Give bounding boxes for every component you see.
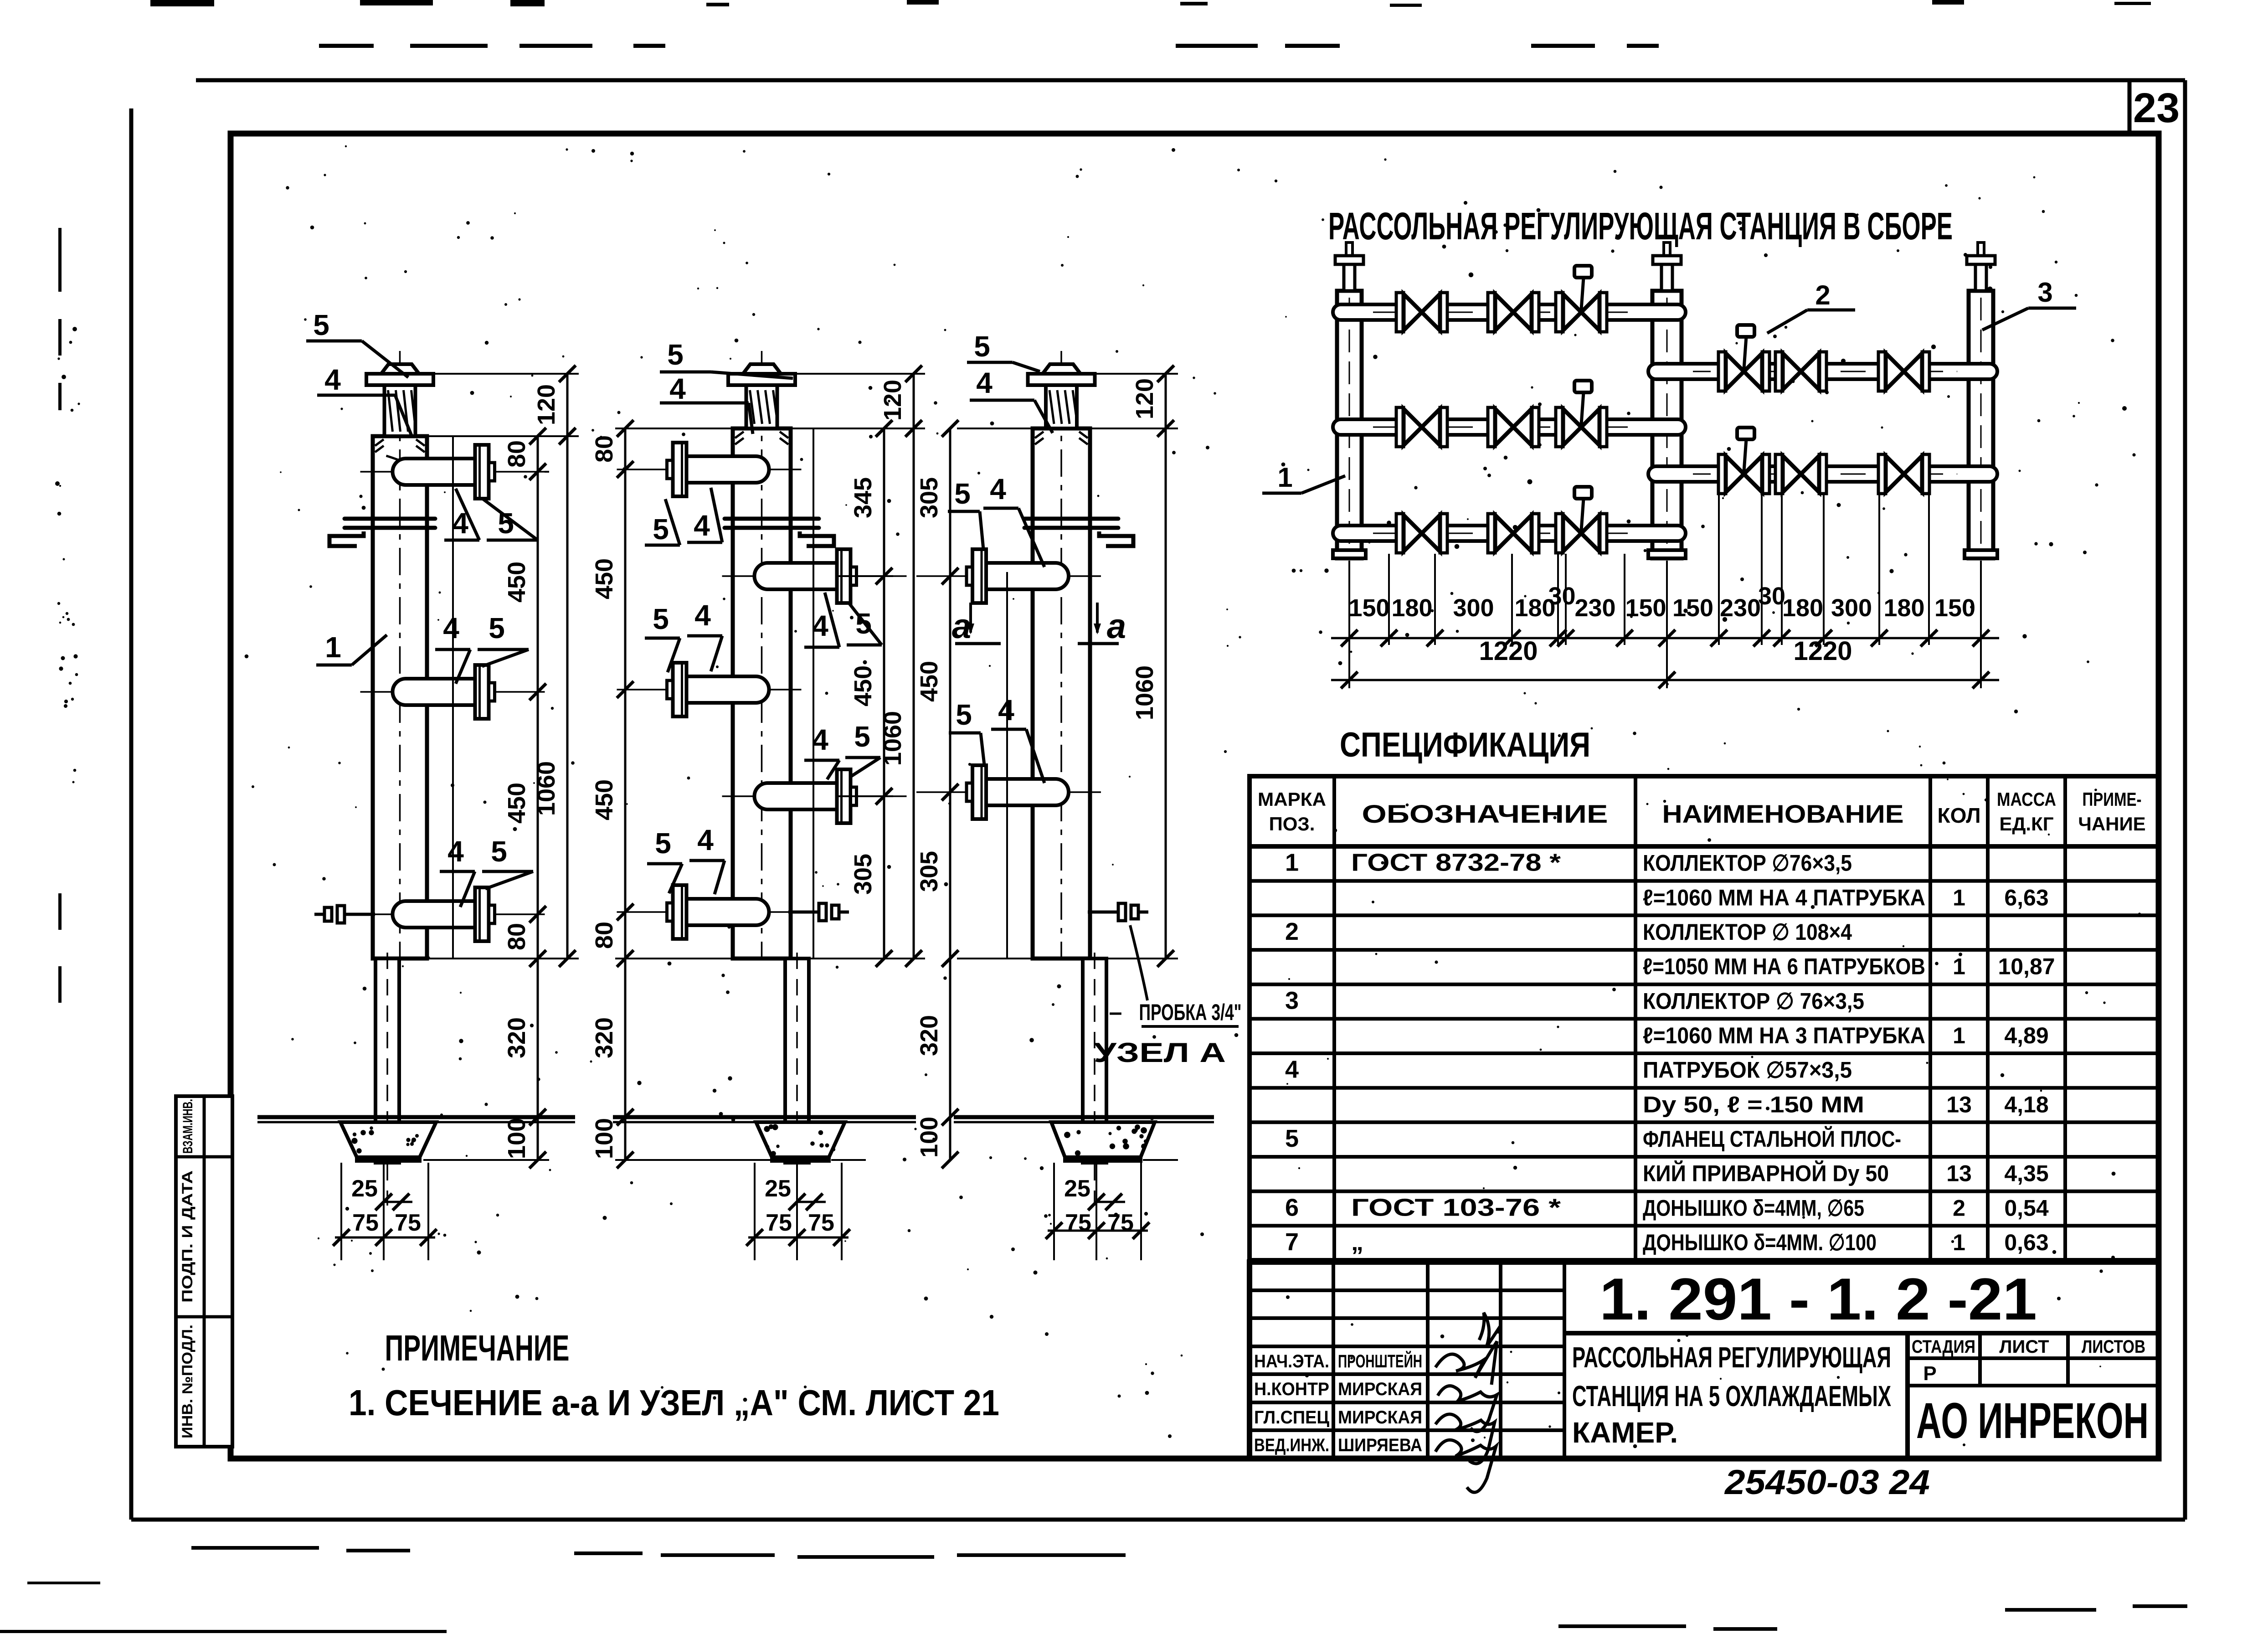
svg-text:Р: Р <box>1923 1362 1936 1385</box>
svg-text:1. СЕЧЕНИЕ а-а И УЗЕЛ „А" СМ: 1. СЕЧЕНИЕ а-а И УЗЕЛ „А" СМ. ЛИСТ 21 <box>349 1382 999 1423</box>
svg-text:1: 1 <box>1953 954 1965 979</box>
specification table grid <box>1250 776 2159 1260</box>
svg-text:5: 5 <box>974 330 990 363</box>
svg-text:2: 2 <box>1285 918 1299 945</box>
collector 1 drain plug <box>314 906 375 923</box>
svg-text:5: 5 <box>653 603 669 635</box>
svg-text:4: 4 <box>694 599 711 632</box>
svg-text:4: 4 <box>812 723 828 756</box>
svg-text:3: 3 <box>1285 987 1299 1014</box>
svg-text:5: 5 <box>653 513 669 546</box>
collector 3 edge line <box>1006 572 1008 959</box>
collector 2 drain plug <box>788 903 849 921</box>
leader label 2 (middle collector) <box>1767 280 1855 333</box>
svg-text:0,63: 0,63 <box>2004 1230 2048 1255</box>
svg-text:120: 120 <box>1131 378 1158 419</box>
collector 2 right outer dimension line (120/1060) <box>879 366 922 967</box>
svg-text:ОБОЗНАЧЕНИЕ: ОБОЗНАЧЕНИЕ <box>1362 799 1608 828</box>
svg-text:180: 180 <box>1782 594 1823 622</box>
svg-text:7: 7 <box>1285 1228 1299 1256</box>
svg-text:МАРКА: МАРКА <box>1258 789 1326 810</box>
svg-text:4: 4 <box>447 835 464 868</box>
svg-text:Dу 50, ℓ = 150 ММ: Dу 50, ℓ = 150 ММ <box>1643 1092 1864 1117</box>
svg-text:2: 2 <box>1953 1195 1965 1221</box>
svg-text:450: 450 <box>915 661 943 702</box>
svg-text:120: 120 <box>533 384 560 425</box>
station collector 1 (left riser) <box>1333 242 1366 558</box>
svg-text:450: 450 <box>591 779 618 820</box>
collector 2 foundation dims 25, 75 75 <box>746 1163 850 1260</box>
svg-text:80: 80 <box>591 922 618 949</box>
svg-text:180: 180 <box>1391 594 1432 622</box>
station dimension extension lines <box>1349 495 1981 688</box>
svg-text:150: 150 <box>1348 594 1389 622</box>
station pipe row 2 (left, valves В4 В5 В6) <box>1332 381 1687 447</box>
svg-text:25450-03 24: 25450-03 24 <box>1724 1463 1930 1502</box>
svg-text:230: 230 <box>1720 594 1761 622</box>
svg-text:ГОСТ 8732-78 *: ГОСТ 8732-78 * <box>1351 849 1561 876</box>
svg-text:ПОЗ.: ПОЗ. <box>1269 813 1315 835</box>
title block grid <box>1250 1262 2159 1459</box>
svg-text:450: 450 <box>503 783 530 824</box>
svg-text:ПАТРУБОК ∅57×3,5: ПАТРУБОК ∅57×3,5 <box>1643 1057 1852 1083</box>
svg-text:МИРСКАЯ: МИРСКАЯ <box>1338 1379 1422 1399</box>
outer sheet border <box>131 80 2185 1520</box>
svg-text:КОЛ: КОЛ <box>1938 804 1981 827</box>
specification header texts <box>1258 789 2146 835</box>
svg-text:305: 305 <box>849 854 877 895</box>
document number 1.291-1.2-21 <box>1599 1266 2037 1332</box>
svg-text:УЗЕЛ А: УЗЕЛ А <box>1094 1037 1226 1068</box>
collector 2 right inner dimension line (345/450/305) <box>849 420 892 967</box>
svg-text:ШИРЯЕВА: ШИРЯЕВА <box>1338 1435 1422 1455</box>
specification table rows <box>1285 849 2055 1256</box>
svg-text:ВЗАМ.ИНВ.: ВЗАМ.ИНВ. <box>180 1099 195 1154</box>
labels 5,4 collector2 branch3 (above) <box>645 599 722 672</box>
svg-text:–: – <box>1109 999 1122 1026</box>
svg-text:5: 5 <box>667 338 684 371</box>
svg-text:ДОНЫШКО δ=4ММ. ∅100: ДОНЫШКО δ=4ММ. ∅100 <box>1643 1230 1877 1255</box>
svg-text:4: 4 <box>324 363 341 396</box>
svg-text:КОЛЛЕКТОР ∅ 108×4: КОЛЛЕКТОР ∅ 108×4 <box>1643 919 1852 945</box>
svg-text:ЛИСТ: ЛИСТ <box>1999 1337 2049 1357</box>
svg-text:25: 25 <box>765 1175 791 1202</box>
left margin stamp cells <box>176 1096 232 1447</box>
labels 4,5 collector1 branch1 <box>444 489 538 540</box>
station dimension line (segment dims) <box>1331 582 1999 646</box>
note ПРИМЕЧАНИЕ <box>385 1328 570 1368</box>
svg-text:ЧАНИЕ: ЧАНИЕ <box>2078 813 2145 835</box>
labels 4,5 collector1 branch3 <box>440 835 533 907</box>
svg-text:ДОНЫШКО δ=4ММ, ∅65: ДОНЫШКО δ=4ММ, ∅65 <box>1643 1195 1864 1221</box>
svg-text:4: 4 <box>1285 1056 1299 1083</box>
svg-text:1060: 1060 <box>879 711 906 766</box>
station pipe row 1 (left, valves В1 В2 В3) <box>1332 266 1687 332</box>
svg-text:4,89: 4,89 <box>2004 1023 2048 1048</box>
handwritten 25450-03 24 <box>1724 1463 1930 1502</box>
svg-text:1060: 1060 <box>1131 665 1158 720</box>
collector 2 edge line <box>813 428 814 959</box>
svg-text:ℓ=1050 ММ НА 6 ПАТРУБКОВ: ℓ=1050 ММ НА 6 ПАТРУБКОВ <box>1643 954 1925 979</box>
svg-text:6,63: 6,63 <box>2004 885 2048 910</box>
svg-text:а: а <box>1107 607 1126 646</box>
station collector 3 (right riser поз.3) <box>1965 242 1997 558</box>
svg-text:4,18: 4,18 <box>2004 1092 2048 1117</box>
svg-text:320: 320 <box>503 1017 530 1058</box>
svg-text:4: 4 <box>812 609 828 642</box>
station pipe row 3 (left, valves В7 В8 В9) <box>1332 487 1687 553</box>
svg-text:305: 305 <box>915 477 943 518</box>
svg-text:4: 4 <box>694 509 710 542</box>
svg-text:75: 75 <box>808 1210 834 1236</box>
collector 1 extension lines <box>423 374 579 1160</box>
station title <box>1328 205 1953 247</box>
svg-text:Н.КОНТР: Н.КОНТР <box>1254 1379 1329 1399</box>
collector 1 outer dimension line (120/1060) <box>533 366 576 967</box>
signature rows <box>1254 1350 1422 1455</box>
collector 3 support bracket <box>1024 519 1133 546</box>
svg-text:1220: 1220 <box>1793 636 1852 666</box>
labels 4,5 collector2 branch2 <box>804 593 882 647</box>
collector 3 foundation <box>1051 1122 1155 1163</box>
svg-text:„: „ <box>1351 1228 1363 1256</box>
svg-text:ГЛ.СПЕЦ: ГЛ.СПЕЦ <box>1254 1407 1329 1428</box>
svg-text:2: 2 <box>1815 280 1830 310</box>
svg-text:75: 75 <box>766 1210 792 1236</box>
svg-text:100: 100 <box>591 1118 618 1159</box>
svg-text:ГОСТ 103-76 *: ГОСТ 103-76 * <box>1351 1194 1561 1221</box>
scan noise speckles <box>245 145 2141 1448</box>
collector 2 body (поз.2) <box>728 351 795 959</box>
svg-text:1: 1 <box>1277 462 1292 493</box>
collector 2 left dimension line (80/450/450/80 + 320/100) <box>591 420 633 1169</box>
svg-text:4: 4 <box>443 612 459 644</box>
svg-text:120: 120 <box>879 380 906 421</box>
labels 5,4 collector2 branch5 (above) <box>647 824 725 894</box>
svg-text:100: 100 <box>915 1117 943 1158</box>
collector 1 inner dimension line (80/450/450/80 + 320/100) <box>503 428 546 1169</box>
svg-text:13: 13 <box>1946 1161 1972 1186</box>
collector 1 post <box>375 953 399 1206</box>
svg-text:4: 4 <box>990 473 1006 505</box>
svg-text:1: 1 <box>1953 1023 1965 1048</box>
svg-text:5: 5 <box>954 477 971 510</box>
svg-text:ФЛАНЕЦ СТАЛЬНОЙ ПЛОС-: ФЛАНЕЦ СТАЛЬНОЙ ПЛОС- <box>1643 1126 1901 1152</box>
section mark a (right) <box>1078 603 1126 646</box>
svg-text:РАССОЛЬНАЯ РЕГУЛИРУЮЩАЯ: РАССОЛЬНАЯ РЕГУЛИРУЮЩАЯ <box>1572 1341 1891 1374</box>
svg-text:75: 75 <box>352 1210 379 1236</box>
signatures (handwritten squiggles) <box>1435 1313 1500 1492</box>
svg-text:ИНВ. №ПОДЛ.: ИНВ. №ПОДЛ. <box>179 1325 195 1438</box>
svg-text:75: 75 <box>1107 1210 1134 1236</box>
svg-text:КИЙ ПРИВАРНОЙ Dу 50: КИЙ ПРИВАРНОЙ Dу 50 <box>1643 1160 1889 1186</box>
collector 1 foundation <box>340 1122 436 1163</box>
svg-text:АО ИНРЕКОН: АО ИНРЕКОН <box>1916 1393 2149 1449</box>
svg-text:150: 150 <box>1672 594 1713 622</box>
svg-text:ℓ=1060 ММ НА 4 ПАТРУБКА: ℓ=1060 ММ НА 4 ПАТРУБКА <box>1643 885 1925 910</box>
svg-text:1: 1 <box>1285 849 1299 876</box>
svg-text:1060: 1060 <box>533 761 560 816</box>
collector 1 support bracket <box>329 519 435 546</box>
svg-text:450: 450 <box>503 562 530 603</box>
collector 2 support bracket <box>725 519 834 546</box>
page number box "23" <box>2129 80 2180 134</box>
svg-text:СПЕЦИФИКАЦИЯ: СПЕЦИФИКАЦИЯ <box>1340 726 1590 764</box>
note line 1 <box>349 1382 999 1423</box>
leader label 1 (left collector) <box>1262 462 1345 493</box>
svg-text:30: 30 <box>1758 582 1785 610</box>
labels 5,4 collector2 branch1 <box>645 488 722 546</box>
svg-text:КОЛЛЕКТОР ∅ 76×3,5: КОЛЛЕКТОР ∅ 76×3,5 <box>1643 988 1864 1014</box>
label УЗЕЛ А <box>1094 1037 1226 1068</box>
svg-text:450: 450 <box>591 558 618 599</box>
svg-text:5: 5 <box>956 698 972 731</box>
svg-text:1: 1 <box>1953 885 1965 910</box>
svg-text:ПРИМЕЧАНИЕ: ПРИМЕЧАНИЕ <box>385 1328 570 1368</box>
labels 5,4 collector3 branch1 (above) <box>948 473 1044 567</box>
collector 3 foundation dims 25, 75 75 <box>1046 1163 1150 1260</box>
svg-text:150: 150 <box>1625 594 1666 622</box>
svg-text:75: 75 <box>1065 1210 1091 1236</box>
leader label 3 (right collector) <box>1982 277 2076 330</box>
svg-text:ПРОБКА 3/4": ПРОБКА 3/4" <box>1139 1000 1242 1025</box>
svg-text:80: 80 <box>591 435 618 463</box>
svg-text:ЕД.КГ: ЕД.КГ <box>1999 813 2053 835</box>
svg-text:1: 1 <box>1953 1230 1965 1255</box>
svg-text:320: 320 <box>915 1015 943 1056</box>
svg-text:5: 5 <box>854 720 870 753</box>
collector 3 extension lines <box>957 374 1178 1160</box>
svg-text:5: 5 <box>1285 1125 1299 1152</box>
labels 5,4 collector3 branch2 (above) <box>949 694 1044 783</box>
svg-text:НАЧ.ЭТА.: НАЧ.ЭТА. <box>1254 1351 1329 1371</box>
ground lines <box>257 1117 1214 1122</box>
labels 5,4 collector 2 top <box>660 338 793 434</box>
svg-text:ЛИСТОВ: ЛИСТОВ <box>2082 1337 2145 1357</box>
stage/sheet header <box>1912 1337 2145 1385</box>
svg-text:80: 80 <box>503 440 530 468</box>
svg-text:ℓ=1060 ММ НА 3 ПАТРУБКА: ℓ=1060 ММ НА 3 ПАТРУБКА <box>1643 1023 1925 1048</box>
svg-text:КОЛЛЕКТОР ∅76×3,5: КОЛЛЕКТОР ∅76×3,5 <box>1643 850 1852 876</box>
svg-text:5: 5 <box>491 835 507 868</box>
svg-text:4: 4 <box>998 694 1014 727</box>
svg-text:МАССА: МАССА <box>1997 789 2056 810</box>
label 5 (collector 1 top flange) <box>306 309 408 377</box>
svg-text:300: 300 <box>1831 594 1872 622</box>
svg-text:МИРСКАЯ: МИРСКАЯ <box>1338 1407 1422 1428</box>
labels 4,5 collector2 branch4 (above) <box>804 720 880 779</box>
svg-text:10,87: 10,87 <box>1998 954 2055 979</box>
svg-text:320: 320 <box>591 1017 618 1058</box>
label 4 (collector 1 riser) <box>317 363 412 438</box>
svg-text:23: 23 <box>2133 85 2180 131</box>
svg-text:25: 25 <box>351 1175 378 1202</box>
collector 3 right dimension line (120/1060) <box>1131 366 1174 967</box>
collector 1 stub pipes поз.4 + flanges поз.5 <box>360 445 545 941</box>
svg-text:4: 4 <box>976 366 993 399</box>
svg-text:1. 291 - 1. 2 -21: 1. 291 - 1. 2 -21 <box>1599 1266 2037 1332</box>
svg-text:300: 300 <box>1453 594 1494 622</box>
svg-text:25: 25 <box>1064 1175 1090 1202</box>
svg-text:ВЕД.ИНЖ.: ВЕД.ИНЖ. <box>1254 1435 1329 1455</box>
svg-text:ПРИМЕ-: ПРИМЕ- <box>2083 789 2142 810</box>
svg-text:100: 100 <box>503 1118 530 1159</box>
svg-text:6: 6 <box>1285 1194 1299 1221</box>
svg-text:3: 3 <box>2037 277 2052 308</box>
svg-text:НАИМЕНОВАНИЕ: НАИМЕНОВАНИЕ <box>1662 799 1904 828</box>
station overall dimension line (1220,1220) <box>1331 636 1999 688</box>
labels 4,5 collector1 branch2 <box>435 612 529 684</box>
svg-text:СТАНЦИЯ НА 5 ОХЛАЖДАЕМЫХ: СТАНЦИЯ НА 5 ОХЛАЖДАЕМЫХ <box>1572 1380 1891 1412</box>
svg-text:180: 180 <box>1883 594 1924 622</box>
svg-text:КАМЕР.: КАМЕР. <box>1572 1416 1678 1449</box>
collector 2 post <box>785 953 809 1206</box>
svg-text:ПОДП. И ДАТА: ПОДП. И ДАТА <box>179 1170 195 1303</box>
station collector 2 (middle riser поз.2) <box>1648 242 1686 558</box>
svg-text:450: 450 <box>849 665 877 706</box>
inner drawing frame <box>231 134 2159 1459</box>
svg-text:150: 150 <box>1934 594 1975 622</box>
svg-text:ПРОНШТЕЙН: ПРОНШТЕЙН <box>1338 1350 1422 1371</box>
collector 3 stub pipes поз.4 + flanges поз.5 <box>916 549 1101 819</box>
leader ПРОБКА 3/4 <box>1109 925 1242 1026</box>
svg-text:5: 5 <box>313 309 329 341</box>
svg-text:4: 4 <box>669 372 686 405</box>
collector 3 drain plug (пробка) <box>1088 903 1148 921</box>
collector 3 post <box>1083 953 1106 1206</box>
svg-text:0,54: 0,54 <box>2004 1195 2049 1221</box>
collector 2 foundation <box>756 1122 845 1163</box>
collector 1 foundation dims 25, 75 75 <box>333 1163 437 1260</box>
specification title <box>1340 726 1590 764</box>
svg-text:4: 4 <box>697 824 714 856</box>
section mark a (left) <box>952 603 1001 646</box>
svg-text:РАССОЛЬНАЯ РЕГУЛИРУЮЩАЯ СТАН: РАССОЛЬНАЯ РЕГУЛИРУЮЩАЯ СТАНЦИЯ В СБОРЕ <box>1328 205 1953 247</box>
svg-text:5: 5 <box>489 612 505 644</box>
svg-text:СТАДИЯ: СТАДИЯ <box>1912 1337 1975 1357</box>
svg-text:305: 305 <box>915 851 943 892</box>
collector 3 body (поз.3) <box>1028 351 1095 959</box>
organisation АО ИНРЕКОН <box>1916 1393 2149 1449</box>
svg-text:1220: 1220 <box>1479 636 1538 666</box>
collector 3 left dimension line (305/450/305 + 320/100) <box>915 420 958 1169</box>
svg-text:80: 80 <box>503 923 530 950</box>
station pipe row 5 (right, valves В13 В14 В15) <box>1647 428 1999 494</box>
svg-text:13: 13 <box>1946 1092 1972 1117</box>
svg-text:1: 1 <box>325 631 341 664</box>
collector 1 body (поз.1) <box>366 351 433 959</box>
svg-text:345: 345 <box>849 477 877 518</box>
svg-text:30: 30 <box>1548 582 1575 610</box>
svg-text:75: 75 <box>395 1210 421 1236</box>
station pipe row 4 (right, valves В10 В11 В12) <box>1647 325 1999 391</box>
svg-text:4,35: 4,35 <box>2004 1161 2048 1186</box>
collector 2 stub pipes поз.4 + flanges поз.5 <box>617 443 907 939</box>
svg-text:5: 5 <box>655 827 671 860</box>
labels 5,4 collector 3 top <box>967 330 1053 433</box>
svg-text:230: 230 <box>1574 594 1615 622</box>
collector 2 extension lines <box>615 374 925 1160</box>
title block job name <box>1572 1341 1891 1449</box>
collector 1 edge line <box>452 436 454 959</box>
label 1 (collector 1 body) <box>316 631 387 665</box>
